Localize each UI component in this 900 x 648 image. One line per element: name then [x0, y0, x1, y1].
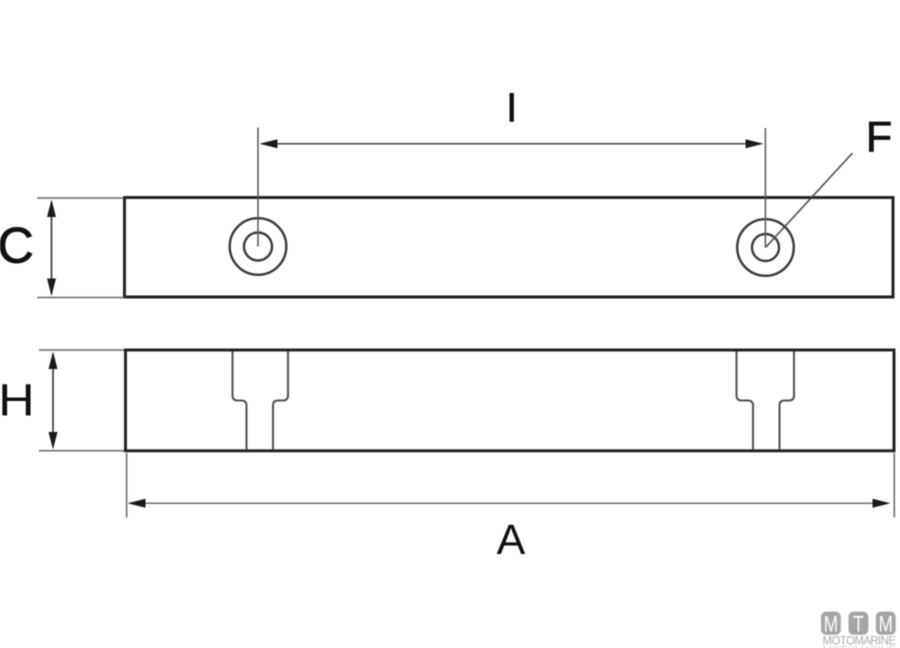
svg-text:C: C [0, 218, 34, 274]
dimension C top arrowhead [47, 200, 56, 218]
dimension H line [52, 354, 54, 447]
logo MTM square 1 [821, 612, 841, 635]
extension line A right [893, 453, 895, 518]
extension line C top [37, 197, 124, 199]
extension line right hole center [764, 128, 766, 248]
slot left profile [233, 352, 247, 450]
slot right profile [737, 352, 754, 450]
hole right outer circle [737, 219, 794, 276]
dimension I line [262, 143, 761, 145]
hole left inner circle [244, 233, 272, 261]
top view body [125, 198, 894, 298]
svg-text:M: M [824, 613, 838, 638]
svg-text:I: I [506, 85, 517, 131]
svg-text:M: M [879, 613, 893, 638]
svg-text:T: T [853, 613, 863, 638]
extension line H top [39, 349, 124, 351]
extension line C bottom [37, 297, 124, 299]
svg-text:H: H [0, 376, 35, 426]
extension line H bottom [39, 450, 124, 452]
svg-text:A: A [497, 516, 526, 564]
hole left outer circle [230, 218, 287, 275]
logo MTM square 3 [876, 612, 896, 635]
logo MTM square 2 [849, 612, 869, 635]
dimension I right arrowhead [746, 139, 764, 148]
dimension A right arrowhead [873, 499, 891, 508]
extension line A left [126, 453, 128, 518]
bottom view body [126, 350, 895, 451]
extension line left hole center [257, 128, 259, 247]
dimension I left arrowhead [260, 139, 278, 148]
leader line F [766, 153, 853, 248]
dimension C line [51, 202, 53, 294]
dimension A line [130, 502, 888, 504]
dimension H bottom arrowhead [49, 432, 58, 450]
dimension A left arrowhead [128, 499, 146, 508]
dimension H top arrowhead [49, 352, 58, 370]
dimension C bottom arrowhead [47, 279, 56, 297]
svg-text:F: F [866, 114, 892, 162]
hole right inner circle [752, 234, 779, 261]
